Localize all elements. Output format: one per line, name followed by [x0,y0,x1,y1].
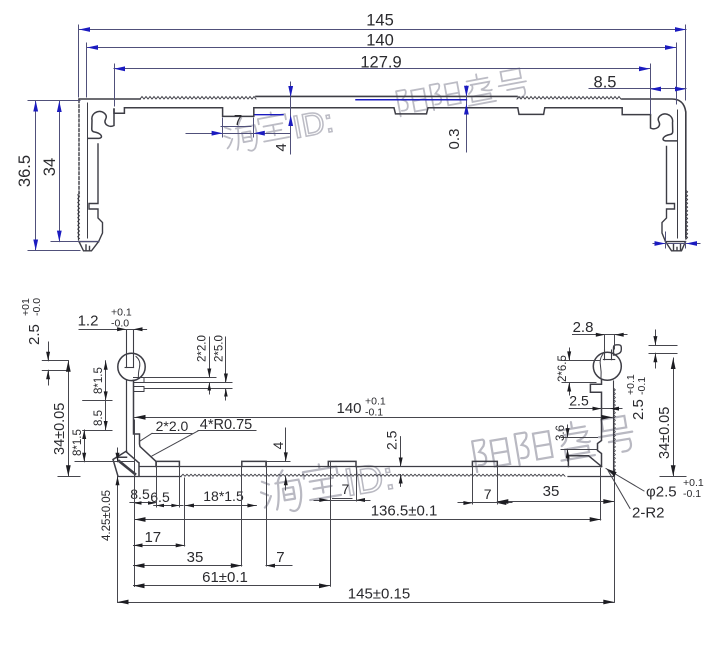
dim 140 bottom [135,417,613,419]
dim 2.5 mid [400,437,402,467]
bottom view: right wall inner edge [590,380,601,467]
svg-text:36.5: 36.5 [16,155,34,187]
dim 34 left [68,361,70,477]
svg-text:35: 35 [543,483,560,500]
svg-text:34±0.05: 34±0.05 [52,403,68,455]
svg-text:4: 4 [270,442,286,450]
top view: left wall inner skin [87,103,89,238]
svg-text:4.25±0.05: 4.25±0.05 [101,490,113,541]
dim 34 [51,241,99,243]
svg-text:4: 4 [273,143,290,151]
svg-text:2.5: 2.5 [569,393,589,409]
svg-text:8.5: 8.5 [594,74,617,92]
svg-text:8.5: 8.5 [93,410,105,426]
dim 4.25 [117,448,119,462]
svg-text:2*2.0: 2*2.0 [156,418,189,434]
dim 127.9 [114,68,650,70]
dim 2x6.5 [562,360,600,362]
dim 4 bottom [266,461,290,463]
svg-text:34: 34 [41,158,59,176]
dim 8.5 left [105,400,107,430]
bottom view: left boss slot [126,330,128,368]
bottom view: left wall fins [134,378,145,383]
dim 3.6 [561,437,598,439]
bottom view: right boss slot [604,350,606,360]
svg-text:145: 145 [366,12,394,30]
bottom view: right wall top tip [614,345,622,355]
top view: dimension extension lines [78,25,80,97]
bottom view: left foot [113,451,139,476]
svg-text:-0.0: -0.0 [111,318,129,330]
svg-text:8*1.5: 8*1.5 [93,367,105,394]
svg-text:7: 7 [484,486,492,502]
svg-text:7: 7 [342,481,350,497]
dim 140 [87,47,676,49]
svg-text:7: 7 [234,112,242,129]
svg-text:2.8: 2.8 [573,319,594,336]
svg-text:8.5: 8.5 [130,486,150,502]
top view: right wall inner edge and tab [662,147,675,242]
svg-text:8*1.5: 8*1.5 [72,429,84,456]
svg-text:1.2: 1.2 [78,313,99,330]
svg-text:127.9: 127.9 [360,54,401,72]
top view: beam bottom edge with notches [114,108,651,117]
tab 1 [156,461,179,466]
svg-text:18*1.5: 18*1.5 [203,488,244,504]
svg-text:φ2.5: φ2.5 [646,484,677,501]
watermark bottom: taobao id [258,412,636,518]
dim 34 right [673,358,675,476]
dim 7 top [222,118,224,137]
top view: left wall inner edge and tab [89,144,103,242]
svg-text:-0.0: -0.0 [31,298,43,316]
bottom view: right wall outer edge [613,381,615,476]
top view: right wall inner skin [677,110,679,238]
tab 2 [242,461,266,466]
svg-text:2.5: 2.5 [384,430,400,450]
dim 8x1.5 upper [105,361,107,401]
tab 4 [472,461,497,466]
dim 2x5.0 [225,337,227,383]
svg-text:2-R2: 2-R2 [632,505,665,522]
bottom view: plate top edge [140,466,602,468]
dim 145 [79,29,686,31]
top view: left screw boss cut [89,109,114,138]
dim 36.5 [28,100,80,102]
top view: left foot [79,242,99,251]
svg-text:-0.1: -0.1 [683,488,701,500]
svg-text:145±0.15: 145±0.15 [348,586,410,603]
svg-text:3.6: 3.6 [555,425,567,441]
svg-text:-0.1: -0.1 [636,377,648,395]
top view: right foot [666,242,686,251]
bottom view: left screw boss circle [118,353,145,380]
svg-text:2*5.0: 2*5.0 [214,335,226,362]
tab 3 [328,461,356,466]
svg-text:-0.1: -0.1 [365,407,383,419]
svg-text:2.5: 2.5 [26,324,43,345]
top view: left wall outer edge [78,100,80,196]
dim phi2.5 [606,469,644,492]
bottom view: right screw boss circle [593,352,621,380]
svg-text:2*6.5: 2*6.5 [557,355,569,382]
dim 1.2 [79,329,147,331]
svg-text:35: 35 [187,549,204,566]
svg-text:17: 17 [144,529,161,546]
svg-text:ID:: ID: [290,102,337,145]
svg-text:6.5: 6.5 [150,489,170,505]
dim 8.5 [589,88,686,90]
dim 2x2.0 [209,337,211,378]
dim 2-R2 [608,471,630,509]
dim 8x1.5 lower [84,430,86,462]
svg-text:61±0.1: 61±0.1 [202,569,248,586]
svg-text:140: 140 [366,32,394,50]
svg-text:0.3: 0.3 [446,129,463,150]
top view: right wall outer edge [685,112,687,196]
bottom view: left wall [126,380,128,452]
svg-text:34±0.05: 34±0.05 [657,407,673,459]
dim 0.3 [466,86,468,152]
svg-text:7: 7 [276,549,284,566]
svg-text:140: 140 [336,400,361,417]
svg-text:2.5: 2.5 [630,399,647,420]
top view: beam top edge [79,96,686,238]
bottom view: right fin and chamfer [568,456,601,467]
dim right foot [653,243,700,245]
svg-text:136.5±0.1: 136.5±0.1 [371,503,438,520]
top view: beam top serration [140,97,256,100]
bottom view: plate bottom edge serrated [118,476,181,478]
dim 2.5 tol right [649,345,677,347]
top view: right screw boss cut [651,114,677,141]
svg-text:2*2.0: 2*2.0 [197,335,209,362]
watermark top: taobao id [222,66,530,158]
dim 4 top [290,82,292,154]
